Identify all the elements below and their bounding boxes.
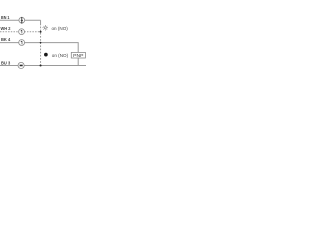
PNP output box <box>71 52 85 58</box>
svg-text:BU 3: BU 3 <box>1 60 10 66</box>
wire BU row <box>0 65 86 67</box>
LED dot annotation bottom <box>44 53 48 57</box>
junction dot rail to BU <box>40 64 42 66</box>
wire PNP box to BU <box>77 58 79 66</box>
svg-text:BN 1: BN 1 <box>1 15 10 21</box>
wire BN row <box>0 19 41 21</box>
junction dot rail crosses BK <box>40 42 42 44</box>
wire BK row <box>0 43 78 53</box>
junction dot WH to rail <box>40 31 42 33</box>
wire rail solid segment from BN corner <box>40 20 42 25</box>
svg-text:BK 4: BK 4 <box>1 37 10 43</box>
svg-text:on (NO): on (NO) <box>52 26 69 31</box>
svg-text:WH 2: WH 2 <box>1 26 11 32</box>
LED lit icon (sun) annotation top <box>43 25 49 30</box>
node plus symbol circle on BN <box>19 17 25 23</box>
svg-text:PNP: PNP <box>73 53 83 58</box>
wire WH row dashed <box>0 31 41 33</box>
node arrow circle on BK <box>19 40 25 46</box>
svg-text:on (NO): on (NO) <box>52 53 69 58</box>
node minus symbol circle on BU <box>18 62 24 68</box>
node arrow circle on WH <box>19 29 25 35</box>
wire rail dashed segment <box>40 27 42 66</box>
